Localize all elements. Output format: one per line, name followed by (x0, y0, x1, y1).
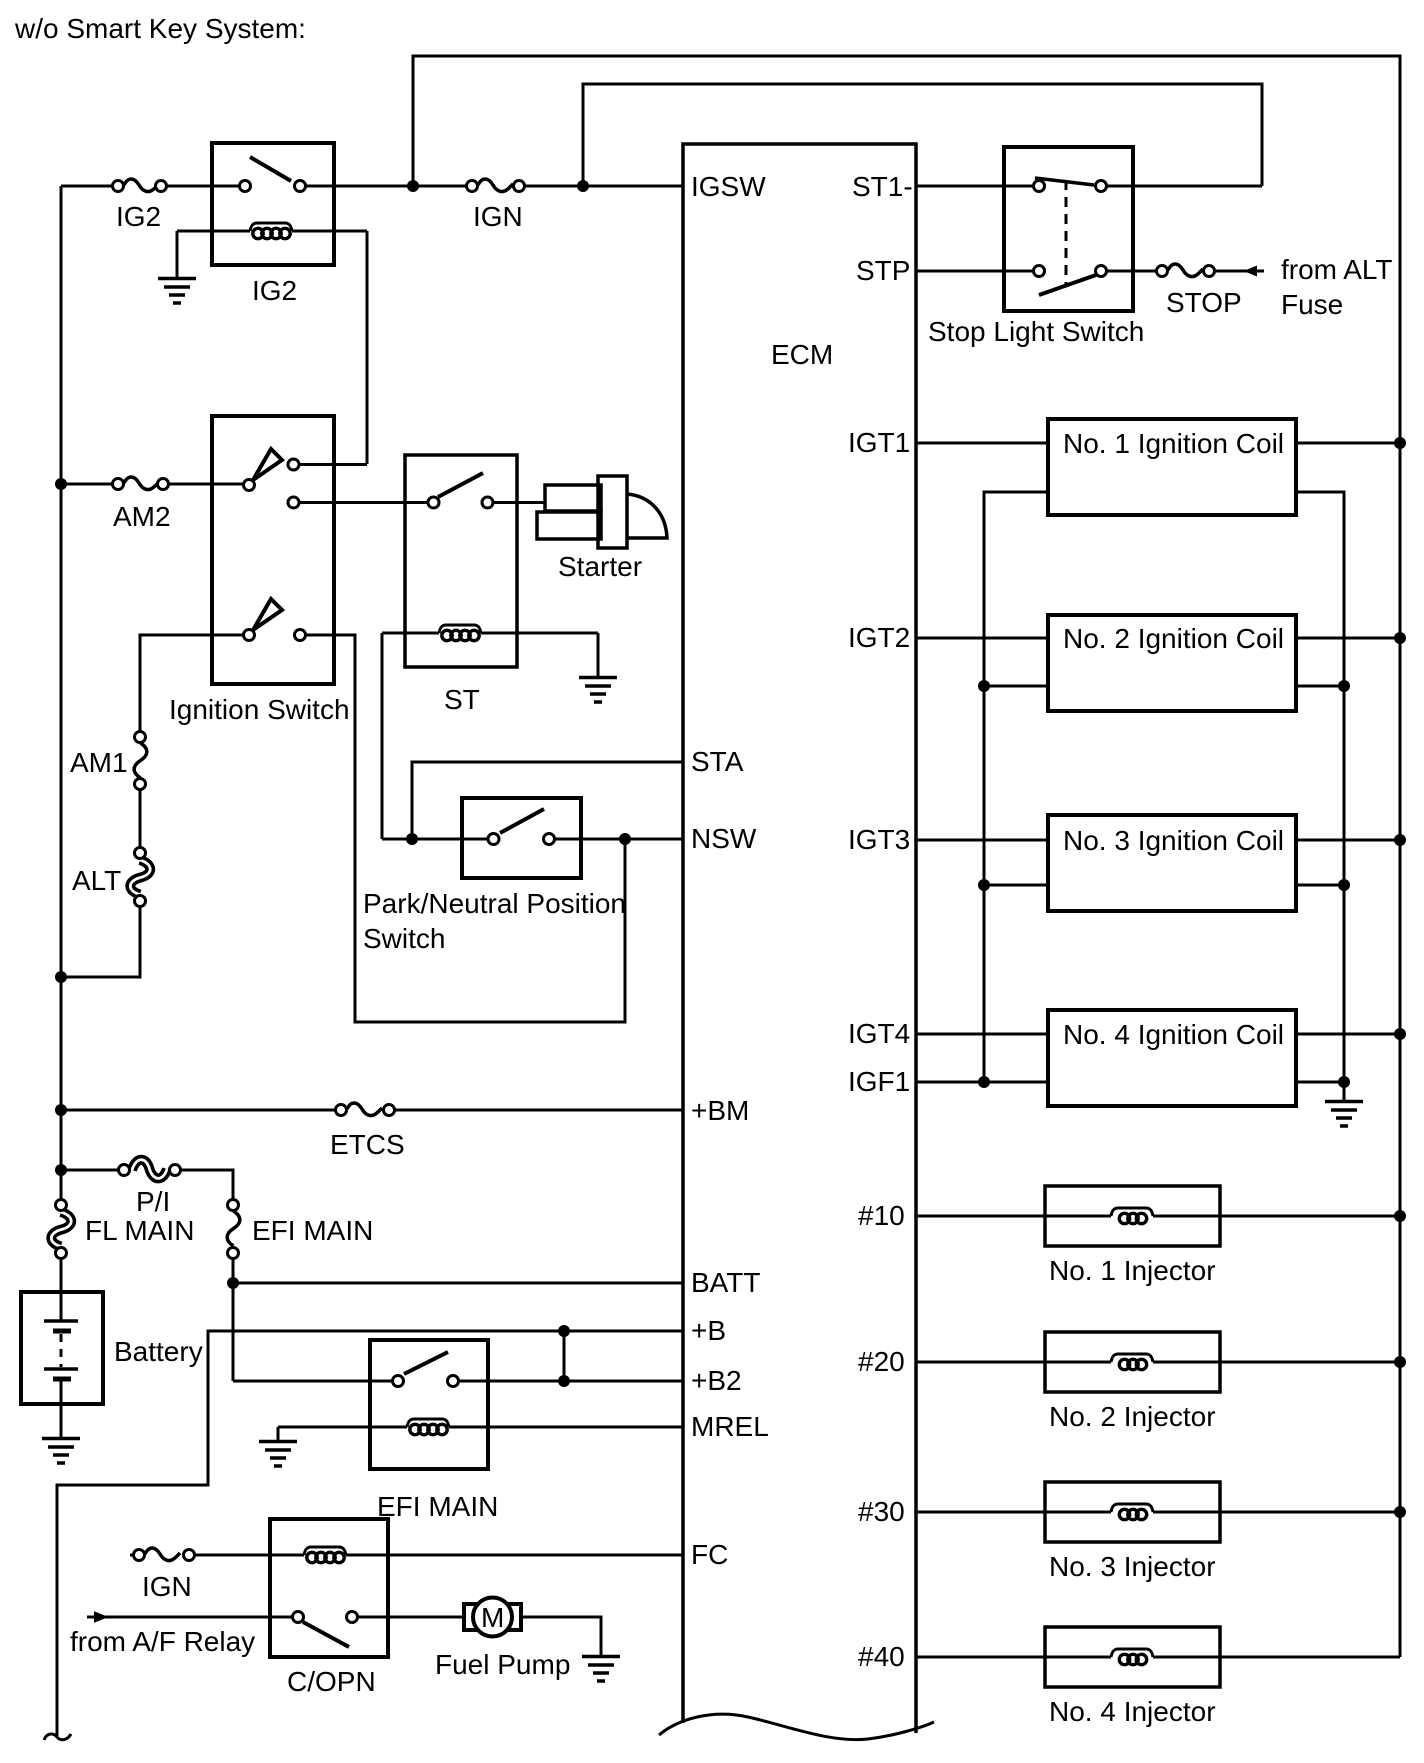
svg-text:IGT2: IGT2 (848, 622, 910, 653)
fusible link P/I (119, 1160, 181, 1179)
node IGT1 rail (1394, 437, 1406, 449)
svg-text:IGT4: IGT4 (848, 1018, 910, 1049)
injector 2 coil (1111, 1354, 1153, 1370)
injector 1 coil (1111, 1208, 1153, 1224)
svg-text:IG2: IG2 (116, 201, 161, 232)
fuse STOP (1157, 264, 1215, 277)
svg-text:M: M (481, 1602, 504, 1633)
fuse IGN (467, 179, 525, 192)
svg-text:STA: STA (691, 746, 744, 777)
wire coil4 secondary right (1296, 1081, 1344, 1084)
ignition switch pole2 (244, 599, 306, 641)
svg-text:No. 1 Injector: No. 1 Injector (1049, 1255, 1216, 1286)
wire coil2 secondary left (984, 685, 1048, 688)
ground battery (42, 1439, 80, 1464)
wire #20 row (916, 1361, 1400, 1364)
svg-text:+B2: +B2 (691, 1365, 742, 1396)
wire BATT row (233, 1259, 683, 1381)
svg-text:w/o Smart Key System:: w/o Smart Key System: (14, 13, 306, 44)
wire NSW row (382, 838, 683, 841)
wire #40 row (916, 1656, 1400, 1659)
injector 1 box (1045, 1186, 1220, 1246)
fusible link FL MAIN (51, 1200, 71, 1259)
squiggle wire break (44, 1734, 71, 1740)
wire IG2 coil to ignition switch (366, 231, 369, 464)
starter motor (537, 476, 667, 548)
wire coil3 secondary right (1296, 884, 1344, 887)
node #10 rail (1394, 1210, 1406, 1222)
stop light switch box (1004, 147, 1133, 311)
svg-text:Switch: Switch (363, 923, 445, 954)
stop light switch bottom contacts (1034, 266, 1107, 296)
node NSW right (619, 833, 631, 845)
svg-text:No. 1 Ignition Coil: No. 1 Ignition Coil (1063, 428, 1284, 459)
node coil3 right (1338, 879, 1350, 891)
fuel pump motor (464, 1598, 521, 1637)
relay ST coil (382, 625, 598, 641)
wire IGT2 row (916, 637, 1400, 640)
ground EFI MAIN relay (259, 1427, 297, 1466)
svg-text:+BM: +BM (691, 1095, 749, 1126)
relay EFI MAIN coil (278, 1419, 683, 1435)
svg-text:EFI MAIN: EFI MAIN (252, 1215, 373, 1246)
ignition switch box (212, 416, 334, 684)
svg-text:ETCS: ETCS (330, 1129, 405, 1160)
wire #30 row (916, 1511, 1400, 1514)
fuse IGN bottom (134, 1548, 195, 1561)
injector 3 box (1045, 1482, 1220, 1542)
relay IG2 coil (177, 223, 367, 239)
node #20 rail (1394, 1356, 1406, 1368)
svg-text:MREL: MREL (691, 1411, 769, 1442)
svg-text:FC: FC (691, 1539, 728, 1570)
svg-text:No. 3 Injector: No. 3 Injector (1049, 1551, 1216, 1582)
park/neutral position switch contacts (488, 809, 555, 845)
wire coil1 secondary right (1296, 492, 1344, 1100)
svg-text:Battery: Battery (114, 1336, 203, 1367)
injector 4 box (1045, 1627, 1220, 1687)
ignition switch pole1 (244, 449, 300, 508)
wire top bus from IGN node to right rail (413, 56, 1400, 1657)
wire +B2 row (233, 1380, 683, 1383)
svg-text:No. 3 Ignition Coil: No. 3 Ignition Coil (1063, 825, 1284, 856)
arrow from ALT fuse (1244, 266, 1258, 277)
wire ST to starter (494, 501, 545, 504)
node coil4 right (1338, 1076, 1350, 1088)
fuse ETCS (336, 1103, 395, 1116)
relay ST contacts (428, 473, 493, 508)
svg-text:IGSW: IGSW (691, 171, 766, 202)
ground ST relay (579, 633, 617, 702)
svg-text:C/OPN: C/OPN (287, 1666, 376, 1697)
relay IG2 box (212, 143, 334, 265)
svg-text:+B: +B (691, 1315, 726, 1346)
svg-text:P/I: P/I (136, 1186, 170, 1217)
svg-text:#40: #40 (858, 1641, 905, 1672)
node coil2 left (978, 680, 990, 692)
ignition coil 4 box (1048, 1010, 1296, 1106)
battery (21, 1259, 103, 1437)
svg-text:IGT3: IGT3 (848, 824, 910, 855)
ground fuel pump (582, 1657, 620, 1682)
injector 2 box (1045, 1332, 1220, 1392)
node IGT3 rail (1394, 834, 1406, 846)
relay ST box (405, 455, 517, 667)
wire +B to +B2 link (563, 1331, 566, 1381)
svg-text:ECM: ECM (771, 339, 833, 370)
wire pole2 left to AM1 (140, 635, 243, 731)
wire IGF1 row (916, 1081, 1048, 1084)
wire +BM row (61, 1109, 683, 1112)
svg-text:STOP: STOP (1166, 287, 1242, 318)
wire fuel pump to ground (521, 1617, 601, 1655)
ignition coil 2 box (1048, 615, 1296, 711)
wire STA row (412, 762, 683, 839)
wire coil3 secondary left (984, 884, 1048, 887)
wire left rail (60, 186, 63, 1200)
svg-text:#20: #20 (858, 1346, 905, 1377)
stop light switch top contacts (1034, 178, 1107, 192)
wire coil1 secondary left (984, 492, 1048, 1082)
relay IG2 contacts (240, 157, 306, 192)
svg-text:AM2: AM2 (113, 501, 171, 532)
svg-text:EFI MAIN: EFI MAIN (377, 1491, 498, 1522)
fuse IG2 (113, 179, 167, 192)
svg-text:NSW: NSW (691, 823, 757, 854)
wire ST1 row (916, 185, 1262, 188)
svg-text:No. 2 Ignition Coil: No. 2 Ignition Coil (1063, 623, 1284, 654)
node #30 rail (1394, 1506, 1406, 1518)
node coil2 right (1338, 680, 1350, 692)
node coil3 left (978, 879, 990, 891)
fusible link ALT (130, 848, 150, 907)
wire AM1 to ALT (139, 790, 142, 847)
fuse AM2 (113, 477, 169, 490)
fuse AM1 (134, 732, 147, 790)
wire second bus from IGN out node to ST1 (583, 84, 1262, 186)
svg-text:IGF1: IGF1 (848, 1066, 910, 1097)
svg-text:ST: ST (444, 684, 480, 715)
svg-text:Starter: Starter (558, 551, 642, 582)
relay C/OPN box (270, 1519, 388, 1657)
relay EFI MAIN contacts (393, 1352, 459, 1387)
wire pole2 right down-around to NSW node (306, 635, 625, 1022)
arrow from A/F relay (94, 1611, 109, 1622)
relay C/OPN contacts (293, 1612, 358, 1648)
ground ignition coils (1325, 1102, 1363, 1127)
injector 4 coil (1111, 1649, 1153, 1665)
svg-text:STP: STP (856, 255, 910, 286)
node P/I (55, 1164, 67, 1176)
ECM box (659, 144, 934, 1740)
node left rail ALT (55, 971, 67, 983)
svg-text:#30: #30 (858, 1496, 905, 1527)
svg-text:IGN: IGN (473, 201, 523, 232)
relay C/OPN coil (304, 1547, 346, 1563)
wire ST coil to NSW (381, 633, 384, 839)
wire STP row (916, 270, 1264, 273)
node IGT4 rail (1394, 1028, 1406, 1040)
ignition coil 3 box (1048, 815, 1296, 911)
wire IGT1 row (916, 442, 1400, 445)
wire #10 row (916, 1215, 1400, 1218)
svg-text:FL MAIN: FL MAIN (85, 1215, 194, 1246)
wire ALT return to left rail (61, 907, 140, 977)
node NSW left (406, 833, 418, 845)
node IGN right (577, 180, 589, 192)
svg-text:Ignition Switch: Ignition Switch (169, 694, 350, 725)
svg-text:No. 4 Ignition Coil: No. 4 Ignition Coil (1063, 1019, 1284, 1050)
svg-text:from A/F Relay: from A/F Relay (70, 1626, 255, 1657)
svg-text:Park/Neutral Position: Park/Neutral Position (363, 888, 626, 919)
ground IG2 relay (158, 231, 196, 303)
park/neutral position switch box (462, 798, 581, 878)
wire coil2 secondary right (1296, 685, 1344, 688)
svg-text:#10: #10 (858, 1200, 905, 1231)
svg-text:from ALT: from ALT (1281, 254, 1393, 285)
stop light switch dashed link (1065, 180, 1068, 285)
svg-text:ALT: ALT (72, 865, 121, 896)
wire IGT4 row (916, 1033, 1400, 1036)
wire IG2 row (61, 185, 683, 188)
svg-text:IG2: IG2 (252, 275, 297, 306)
ignition coil 1 box (1048, 419, 1296, 515)
wire ST contact to ST relay (300, 501, 428, 504)
wire FC row (130, 1554, 683, 1557)
svg-text:No. 2 Injector: No. 2 Injector (1049, 1401, 1216, 1432)
wire from A/F relay row (87, 1616, 462, 1619)
wire AM2 row (61, 483, 243, 486)
node IGN left (407, 180, 419, 192)
svg-text:BATT: BATT (691, 1267, 760, 1298)
wire +B row (57, 1331, 683, 1736)
node AM2 (55, 478, 67, 490)
svg-text:No. 4 Injector: No. 4 Injector (1049, 1696, 1216, 1727)
wire IG2 contact out (300, 463, 367, 466)
wire P/I row (61, 1170, 233, 1200)
svg-text:ST1-: ST1- (852, 171, 913, 202)
svg-text:Stop Light Switch: Stop Light Switch (928, 316, 1144, 347)
node +B (558, 1325, 570, 1337)
node +BM (55, 1104, 67, 1116)
svg-text:Fuse: Fuse (1281, 289, 1343, 320)
svg-text:AM1: AM1 (70, 747, 128, 778)
relay EFI MAIN box (370, 1340, 488, 1469)
node IGF1 (978, 1076, 990, 1088)
injector 3 coil (1111, 1504, 1153, 1520)
svg-text:IGT1: IGT1 (848, 427, 910, 458)
node +B2 (558, 1375, 570, 1387)
svg-text:Fuel Pump: Fuel Pump (435, 1649, 570, 1680)
node BATT (227, 1277, 239, 1289)
wire IGT3 row (916, 839, 1400, 842)
svg-text:IGN: IGN (142, 1571, 192, 1602)
fuse EFI MAIN (227, 1200, 240, 1259)
node IGT2 rail (1394, 632, 1406, 644)
